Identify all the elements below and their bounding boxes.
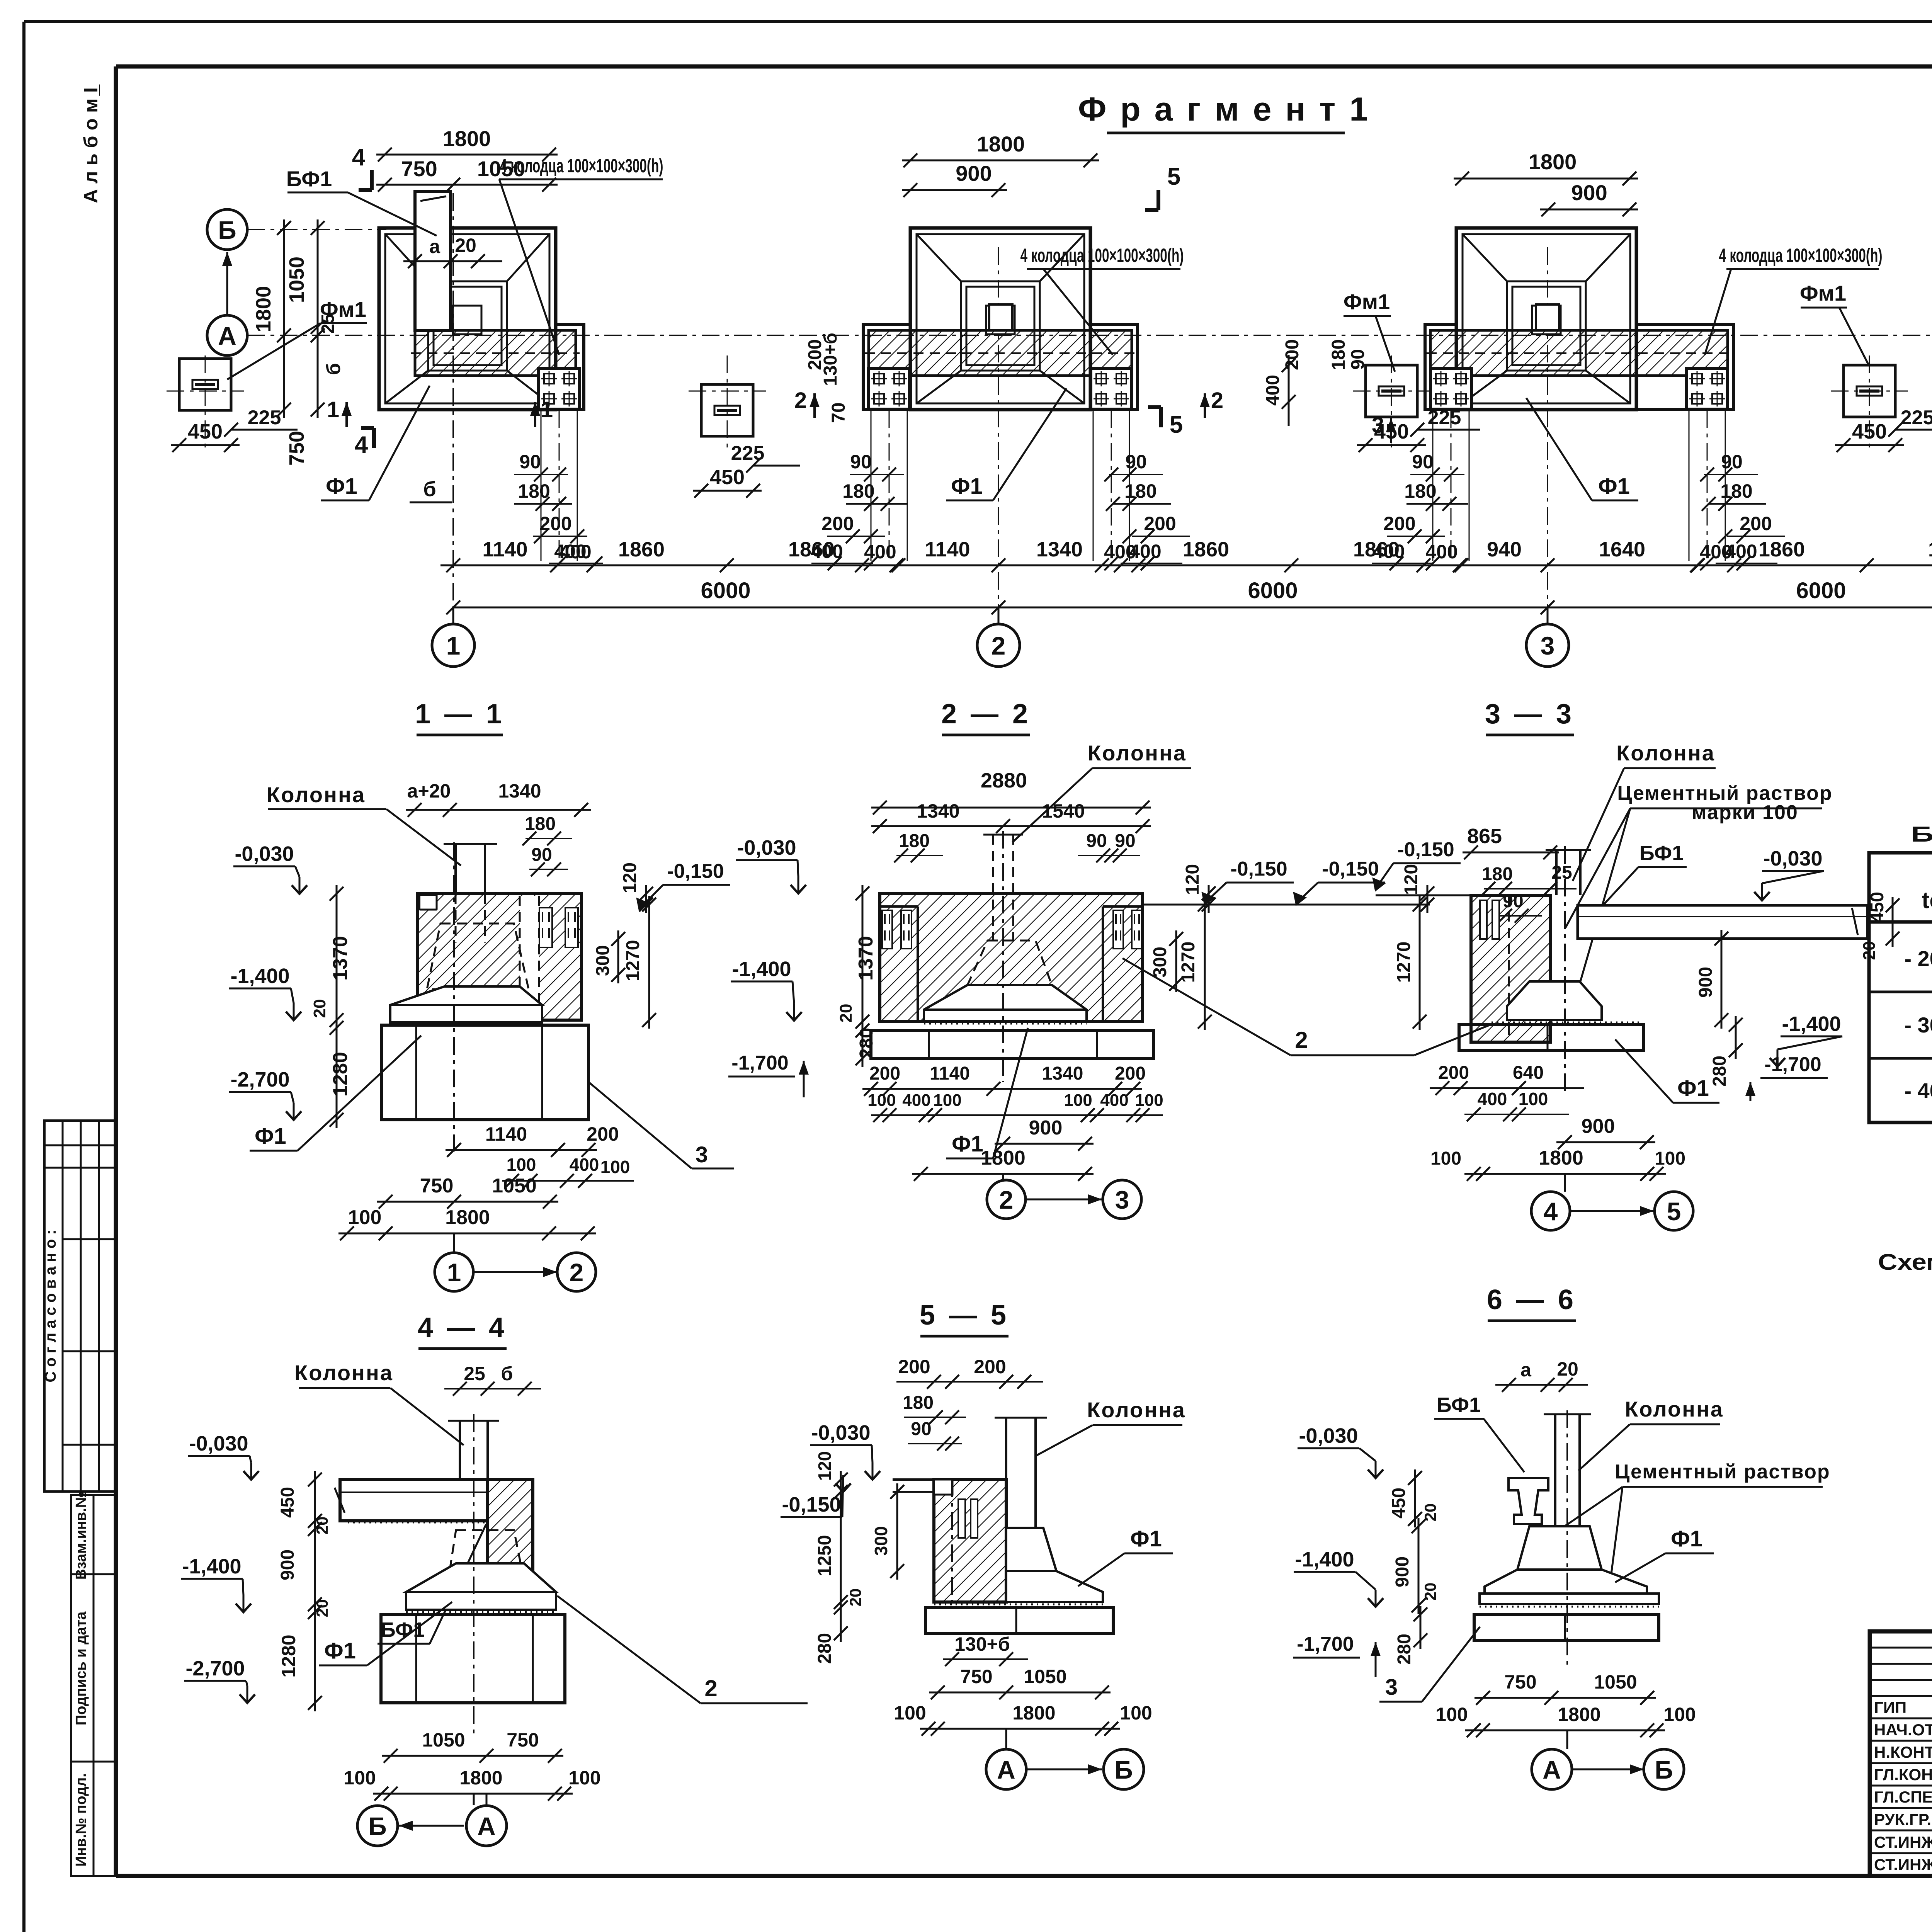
svg-text:Инв.№ подл.: Инв.№ подл.	[73, 1773, 89, 1867]
s66 label БФ1	[1434, 1393, 1524, 1472]
section 1-1 dims a+20 1340	[406, 780, 591, 817]
svg-text:20: 20	[1421, 1583, 1439, 1601]
svg-text:Фм1: Фм1	[320, 297, 366, 321]
svg-text:900: 900	[277, 1549, 298, 1580]
s22 level -1,700 left	[728, 1052, 809, 1097]
s66 bedding slab	[1474, 1614, 1659, 1640]
s22 bottom dims	[862, 1063, 1163, 1181]
section title 1-1	[415, 699, 505, 735]
title block signatures column labels	[1874, 1698, 1932, 1874]
s22 floor line right	[1143, 904, 1430, 906]
axis bubbles 1-4	[432, 607, 474, 667]
arrow А to Б	[226, 252, 228, 315]
svg-text:1340: 1340	[917, 800, 959, 822]
s33 dims 180 25 90	[1481, 862, 1577, 923]
bolt dims plan3 left	[1372, 451, 1468, 570]
svg-text:3: 3	[696, 1142, 708, 1167]
svg-text:750: 750	[507, 1729, 539, 1751]
svg-text:280: 280	[815, 1633, 835, 1664]
axis A dash-dot line	[247, 335, 1932, 336]
beam БФ1 stub plan 1	[415, 192, 451, 330]
s44 beam БФ1	[335, 1480, 488, 1522]
svg-text:90: 90	[911, 1419, 931, 1439]
s66 left vertical dims	[1389, 1469, 1439, 1665]
stamp boxes Взам.инв / Подпись и дата / Инв.№ подл.	[71, 1492, 116, 1876]
svg-text:2: 2	[794, 388, 807, 413]
section title 4-4	[418, 1312, 507, 1349]
axis circle А	[207, 315, 247, 355]
s66 column	[1544, 1414, 1591, 1528]
svg-text:БФ1: БФ1	[1639, 842, 1684, 865]
svg-text:900: 900	[1582, 1115, 1615, 1138]
anchor bolt plate plan 2 right	[1091, 368, 1132, 409]
svg-text:100: 100	[1135, 1091, 1163, 1110]
s44 column	[448, 1421, 499, 1480]
svg-text:90: 90	[519, 451, 541, 473]
svg-text:100: 100	[1064, 1091, 1092, 1110]
s44 levels -1,400 -2,700	[181, 1555, 255, 1703]
svg-text:Цементный раствор: Цементный раствор	[1615, 1461, 1830, 1483]
svg-text:1270: 1270	[623, 940, 643, 981]
s66 label Колонна	[1578, 1397, 1724, 1471]
svg-text:Б: Б	[1655, 1755, 1673, 1784]
svg-text:3: 3	[1385, 1675, 1398, 1700]
bolt dims plan1: 90/180/200/400	[514, 451, 603, 570]
svg-text:1370: 1370	[329, 936, 352, 981]
dim 225 footing 0	[224, 406, 298, 437]
bolt dims plan2 right	[1104, 451, 1190, 570]
s55 levels	[781, 1421, 880, 1517]
svg-text:180: 180	[518, 480, 550, 502]
svg-text:2 — 2: 2 — 2	[941, 699, 1031, 730]
svg-text:1640: 1640	[1599, 538, 1645, 561]
s44 axis dashdot	[473, 1414, 474, 1739]
level -2,700 s11	[229, 1068, 301, 1120]
svg-text:70: 70	[828, 402, 849, 423]
s44 label БФ1	[378, 1524, 486, 1644]
svg-text:1860: 1860	[1759, 538, 1805, 561]
svg-text:1: 1	[447, 1258, 461, 1287]
s33 dim 865	[1463, 825, 1559, 859]
svg-text:Схему расположения элементов: Схему расположения элементов фундаментов…	[1878, 1250, 1932, 1275]
svg-text:-0,150: -0,150	[782, 1493, 841, 1516]
svg-text:Колонна: Колонна	[294, 1361, 393, 1385]
svg-text:100: 100	[1663, 1704, 1696, 1725]
svg-text:РУК.ГР.: РУК.ГР.	[1874, 1810, 1931, 1828]
s55 bottom dims	[894, 1633, 1152, 1736]
s66 beam БФ1 end profile	[1509, 1478, 1548, 1524]
svg-text:130+б: 130+б	[820, 333, 841, 386]
s33 dim 450 20 right	[1860, 892, 1900, 960]
s44 bottom dims	[344, 1729, 600, 1801]
s55 axis circles А-Б	[986, 1729, 1144, 1789]
svg-text:4: 4	[1544, 1197, 1558, 1226]
svg-text:2: 2	[999, 1185, 1014, 1214]
svg-text:1270: 1270	[1178, 942, 1199, 983]
s66 level -0,030	[1298, 1424, 1383, 1478]
s66 axis circles А-Б	[1532, 1730, 1684, 1789]
svg-text:1: 1	[541, 397, 553, 422]
svg-text:4 — 4: 4 — 4	[418, 1312, 507, 1343]
svg-text:5 — 5: 5 — 5	[920, 1300, 1009, 1331]
svg-text:4: 4	[352, 144, 366, 171]
label Ф1 plan 1	[321, 386, 430, 500]
svg-text:200: 200	[869, 1063, 900, 1084]
svg-text:1860: 1860	[618, 538, 665, 561]
svg-text:Ф1: Ф1	[1671, 1526, 1702, 1551]
svg-text:1280: 1280	[278, 1634, 299, 1677]
s22 pedestal	[924, 940, 1087, 1024]
svg-text:-0,030: -0,030	[1299, 1424, 1358, 1447]
s44 hatched block	[448, 1480, 533, 1580]
svg-text:НАЧ.ОТД.: НАЧ.ОТД.	[1874, 1721, 1932, 1739]
footing Фм1 #2	[1366, 365, 1417, 417]
svg-text:б: б	[323, 363, 344, 375]
s44 label Колонна	[294, 1361, 464, 1445]
section 1-1 hatched block	[418, 894, 582, 1020]
svg-text:2880: 2880	[981, 769, 1027, 792]
svg-text:120: 120	[1401, 864, 1422, 895]
svg-text:1800: 1800	[445, 1206, 490, 1229]
svg-text:200: 200	[539, 513, 571, 534]
svg-text:180: 180	[899, 831, 930, 851]
s22 dim 1340 1540	[871, 800, 1151, 833]
svg-text:Колонна: Колонна	[1087, 1398, 1186, 1422]
svg-text:1050: 1050	[1024, 1666, 1066, 1687]
section title 2-2	[941, 699, 1031, 735]
svg-text:750: 750	[401, 156, 437, 181]
s22 levels -0,150 x2	[1202, 858, 1385, 905]
svg-text:5: 5	[1170, 412, 1183, 438]
s11 label Ф1	[250, 1036, 421, 1151]
s44 label Ф1	[319, 1602, 452, 1665]
s33 bottom dims	[1430, 1063, 1685, 1181]
rotated dims right of plan 2	[805, 333, 849, 423]
section mark 2 bottom left plan 2	[794, 388, 820, 418]
svg-text:-1,400: -1,400	[230, 964, 289, 988]
section mark 3 bottom left plan 3	[1372, 413, 1396, 443]
svg-text:180: 180	[1404, 480, 1436, 502]
main title block frame	[1870, 1631, 1932, 1876]
dim 450 footing 2	[1357, 420, 1426, 452]
svg-text:Взам.инв.№: Взам.инв.№	[73, 1492, 89, 1580]
s66 bottom dims	[1435, 1671, 1696, 1737]
dim 225 footing 3	[1888, 406, 1932, 437]
svg-text:Колонна: Колонна	[267, 782, 366, 807]
svg-text:1800: 1800	[1012, 1702, 1055, 1724]
svg-text:А: А	[1543, 1755, 1561, 1784]
svg-text:- 30°С: - 30°С	[1904, 1013, 1932, 1037]
svg-text:1800: 1800	[1529, 150, 1577, 174]
svg-text:750: 750	[285, 431, 308, 466]
svg-text:100: 100	[1435, 1704, 1468, 1725]
dim 450 footing 3	[1835, 420, 1904, 452]
svg-text:450: 450	[277, 1487, 298, 1518]
svg-text:СТ.ИНЖ.: СТ.ИНЖ.	[1874, 1855, 1932, 1874]
s55 top dims 200 200 180 90	[896, 1356, 1043, 1451]
left vertical dims plan 1	[252, 219, 344, 466]
svg-text:225: 225	[731, 442, 765, 464]
svg-text:А: А	[218, 321, 236, 350]
svg-text:1050: 1050	[422, 1729, 465, 1751]
dim 450 footing 1	[693, 466, 762, 498]
svg-text:20: 20	[455, 235, 476, 256]
svg-text:20: 20	[313, 1517, 331, 1535]
svg-text:-0,030: -0,030	[811, 1421, 870, 1444]
s33 label Колонна	[1573, 741, 1716, 881]
s33 level -1,400 right	[1770, 1012, 1842, 1066]
svg-text:200: 200	[898, 1356, 930, 1378]
svg-text:100: 100	[568, 1767, 600, 1789]
label Ф1 plan 2	[946, 388, 1066, 500]
svg-text:900: 900	[1392, 1556, 1413, 1587]
svg-text:Ф1: Ф1	[951, 474, 983, 499]
dim 1800 plan 1	[376, 126, 558, 162]
s33 pedestal	[1492, 981, 1642, 1022]
svg-text:1860: 1860	[1353, 538, 1400, 561]
svg-text:Б: Б	[368, 1812, 386, 1840]
dim 900 plan 2	[902, 161, 1007, 197]
s44 bedding block	[381, 1614, 565, 1703]
grid axis 1 line	[452, 193, 454, 625]
svg-text:180: 180	[1328, 339, 1349, 370]
svg-text:Колонна: Колонна	[1625, 1397, 1724, 1421]
s44 level -0,030	[188, 1432, 259, 1480]
s66 levels -1,400 -1,700	[1293, 1548, 1383, 1677]
s33 beam БФ1	[1578, 905, 1867, 939]
s33 axis dashdot	[1564, 846, 1566, 1094]
s33 bedding slab	[1459, 1025, 1643, 1050]
plan1 band step outline	[556, 325, 584, 410]
svg-text:1: 1	[446, 631, 461, 660]
svg-text:2: 2	[704, 1675, 717, 1701]
svg-text:100: 100	[894, 1702, 926, 1724]
svg-text:Н.КОНТР.: Н.КОНТР.	[1874, 1743, 1932, 1761]
column mark plan 2	[989, 304, 1012, 330]
svg-text:1140: 1140	[482, 538, 527, 561]
footing Фм1 #0	[179, 359, 231, 410]
dim a/20 plan 1	[403, 235, 502, 268]
svg-text:Фм1: Фм1	[1800, 281, 1846, 305]
svg-text:1860: 1860	[788, 538, 835, 561]
svg-text:1280: 1280	[329, 1052, 352, 1097]
svg-text:-1,700: -1,700	[1297, 1633, 1354, 1655]
svg-text:а+20: а+20	[407, 780, 451, 802]
svg-text:1800: 1800	[443, 126, 491, 151]
svg-text:Фм1: Фм1	[1344, 289, 1390, 314]
section mark 2 bottom right plan 2	[1200, 388, 1223, 418]
hatched band plan 1	[411, 330, 580, 376]
bolt dims plan3 right	[1700, 451, 1785, 570]
drawing title Фрагмент 1	[1078, 91, 1370, 133]
section 1-1 label Колонна	[267, 782, 461, 866]
s55 label Колонна	[1036, 1398, 1186, 1456]
svg-text:С о г л а с о в а н о :: С о г л а с о в а н о :	[42, 1230, 59, 1382]
svg-text:200: 200	[974, 1356, 1006, 1378]
svg-text:1140: 1140	[930, 1063, 970, 1084]
svg-text:200: 200	[1740, 513, 1772, 534]
section 1-1 dims 180 90	[522, 814, 572, 876]
svg-text:4 колодца 100×100×300(h): 4 колодца 100×100×300(h)	[1719, 245, 1883, 266]
svg-text:120: 120	[1182, 864, 1203, 895]
svg-text:-0,030: -0,030	[1763, 847, 1822, 870]
s55 left vertical dims	[815, 1451, 904, 1664]
svg-text:1860: 1860	[1183, 538, 1229, 561]
s11 bottom dims	[338, 1123, 634, 1240]
section 1-1 bedding block	[382, 1025, 588, 1120]
s33 label Цементный раствор марки 100	[1566, 782, 1833, 981]
svg-text:90: 90	[1086, 831, 1107, 851]
svg-text:3: 3	[1541, 631, 1555, 660]
svg-text:Буквенные значения размеров: Буквенные значения размеров фундаментов	[1911, 822, 1932, 846]
400 labels above chain	[550, 541, 600, 572]
section 1-1 pedestal	[390, 986, 542, 1025]
svg-text:130+б: 130+б	[954, 1633, 1010, 1655]
svg-text:марки 100: марки 100	[1692, 801, 1798, 824]
footing Фм1 #3	[1844, 365, 1895, 417]
svg-text:225: 225	[1901, 406, 1932, 429]
svg-text:te: te	[1922, 887, 1932, 913]
svg-text:3: 3	[1115, 1185, 1129, 1214]
svg-text:4 колодца 100×100×300(h): 4 колодца 100×100×300(h)	[500, 155, 663, 177]
foundation pit plan Ф1 at axis 1	[379, 228, 556, 410]
svg-text:б: б	[423, 478, 436, 501]
grid axis 3 line	[1547, 247, 1548, 625]
svg-text:200: 200	[1144, 513, 1176, 534]
s33 level -1,700 right	[1745, 1053, 1828, 1101]
svg-text:5: 5	[1667, 1197, 1681, 1226]
svg-text:180: 180	[525, 814, 556, 834]
hatched band plan 2	[865, 330, 1136, 376]
svg-text:1860: 1860	[1928, 538, 1932, 561]
svg-text:200: 200	[1282, 339, 1303, 370]
s22 bedding slab	[871, 1031, 1153, 1058]
svg-text:-1,400: -1,400	[182, 1555, 241, 1578]
svg-text:1800: 1800	[977, 132, 1025, 156]
section mark 5 top plan 2	[1145, 163, 1180, 210]
kolodtsy label 3	[1705, 245, 1883, 355]
svg-text:а: а	[1520, 1359, 1532, 1381]
svg-text:4: 4	[355, 432, 368, 458]
s33 axis circles 4-5	[1531, 1174, 1693, 1230]
plan2 band step outlines	[863, 325, 1138, 410]
dim 450 footing 0	[171, 420, 240, 452]
section mark 1 bottom left plan 1	[327, 397, 352, 427]
svg-text:-0,150: -0,150	[1322, 858, 1379, 880]
fm1 axis dashdots	[205, 355, 206, 450]
svg-text:450: 450	[710, 466, 745, 489]
svg-text:100: 100	[933, 1091, 961, 1110]
svg-text:400: 400	[1263, 375, 1283, 406]
svg-text:90: 90	[1125, 451, 1147, 473]
svg-text:90: 90	[1348, 349, 1368, 369]
svg-text:180: 180	[842, 480, 874, 502]
section mark 1 bottom right plan 1	[530, 397, 553, 427]
svg-text:90: 90	[850, 451, 872, 473]
svg-text:1140: 1140	[485, 1123, 527, 1145]
svg-text:180: 180	[1482, 864, 1513, 884]
svg-text:-2,700: -2,700	[185, 1657, 245, 1680]
svg-text:-1,700: -1,700	[1764, 1053, 1821, 1076]
s66 pedestal	[1480, 1526, 1659, 1607]
dim row 6000	[446, 578, 1932, 614]
label Фм1 #0	[227, 297, 367, 379]
svg-text:-0,150: -0,150	[667, 860, 724, 883]
label б bottom plan 1	[410, 478, 452, 502]
svg-text:90: 90	[1115, 831, 1135, 851]
svg-text:Колонна: Колонна	[1088, 741, 1187, 765]
s11 axis circles 1-2	[435, 1233, 596, 1291]
svg-text:640: 640	[1513, 1063, 1544, 1083]
svg-text:200: 200	[821, 513, 854, 534]
svg-text:ГИП: ГИП	[1874, 1698, 1906, 1716]
svg-text:90: 90	[1721, 451, 1743, 473]
svg-text:900: 900	[1696, 967, 1716, 998]
dim 225 footing 1	[731, 442, 800, 473]
svg-text:100: 100	[600, 1157, 630, 1177]
svg-text:20: 20	[1557, 1358, 1578, 1380]
svg-text:200: 200	[1438, 1063, 1469, 1083]
svg-text:90: 90	[1412, 451, 1434, 473]
svg-text:90: 90	[531, 845, 552, 865]
svg-text:180: 180	[903, 1393, 934, 1413]
svg-text:2: 2	[992, 631, 1006, 660]
svg-text:ГЛ.СПЕЦ.: ГЛ.СПЕЦ.	[1874, 1788, 1932, 1806]
svg-text:1050: 1050	[1594, 1671, 1637, 1693]
svg-text:400: 400	[1100, 1091, 1128, 1110]
svg-text:Ф1: Ф1	[255, 1124, 286, 1149]
s22 label Колонна	[1012, 741, 1191, 842]
svg-text:3: 3	[1372, 413, 1384, 438]
svg-text:-1,400: -1,400	[1782, 1012, 1841, 1036]
section mark 4 top plan 1	[352, 144, 372, 190]
svg-text:-2,700: -2,700	[230, 1068, 289, 1091]
svg-text:200: 200	[1115, 1063, 1146, 1084]
s33 level -0,150 left	[1373, 838, 1461, 890]
s22 leader 2	[1122, 958, 1492, 1055]
s66 dims a 20	[1495, 1358, 1588, 1392]
svg-text:2: 2	[570, 1258, 584, 1287]
s22 axis circles 2-3	[987, 1174, 1141, 1219]
svg-text:-1,700: -1,700	[731, 1052, 788, 1074]
anchor bolt plate plan 3 right	[1687, 368, 1728, 409]
label Фм1 #3	[1800, 281, 1872, 372]
svg-text:1 — 1: 1 — 1	[415, 699, 505, 730]
svg-text:1540: 1540	[1042, 800, 1085, 822]
s66 label 3 leader	[1379, 1627, 1480, 1702]
svg-text:6000: 6000	[1248, 578, 1298, 603]
axis Б stub line	[247, 229, 386, 230]
s44 pedestal	[406, 1563, 556, 1612]
svg-text:1370: 1370	[855, 936, 877, 981]
svg-text:1050: 1050	[285, 257, 308, 303]
svg-text:100: 100	[1519, 1089, 1548, 1109]
s22 left dims 1370 20 280	[837, 885, 877, 1067]
section title 3-3	[1485, 699, 1575, 735]
svg-text:280: 280	[1394, 1634, 1415, 1665]
svg-text:900: 900	[1029, 1117, 1063, 1139]
svg-text:20: 20	[837, 1004, 855, 1023]
dim chain row (1140/1860 etc)	[440, 538, 1932, 572]
footing Фм1 #1 (between axes 1 and 2)	[701, 384, 753, 436]
svg-text:280: 280	[856, 1028, 877, 1059]
svg-text:1800: 1800	[1539, 1147, 1583, 1169]
svg-text:-0,150: -0,150	[1230, 858, 1287, 880]
svg-text:280: 280	[1709, 1056, 1730, 1087]
svg-text:2: 2	[1295, 1027, 1308, 1053]
svg-text:-0,150: -0,150	[1397, 838, 1454, 861]
svg-text:1800: 1800	[459, 1767, 502, 1789]
